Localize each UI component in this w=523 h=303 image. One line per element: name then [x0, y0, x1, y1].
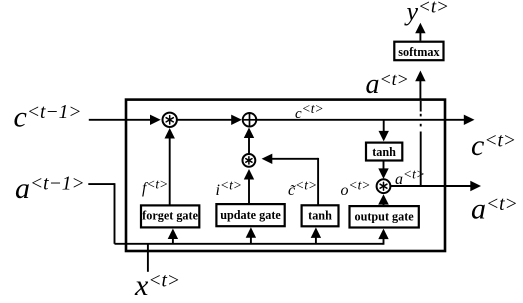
svg-text:tanh: tanh [372, 145, 396, 159]
svg-text:update gate: update gate [220, 208, 281, 222]
multiply node update (circle-asterisk) [243, 154, 256, 167]
tanh box lower [302, 205, 339, 226]
wire c_t-1 into cell [89, 115, 161, 125]
dash-dot wire a_t branch up [420, 101, 422, 186]
output gate box [350, 206, 419, 227]
wire x_t input [147, 244, 149, 272]
wire update gate up to multiply [244, 169, 254, 204]
multiply node output (circle-asterisk) [377, 179, 391, 193]
wire softmax to y_t [415, 23, 425, 41]
multiply node forget (circle-asterisk) [163, 113, 177, 127]
wire a_t-1 down to bus [88, 183, 114, 244]
wire bus up into tanh [311, 227, 321, 243]
svg-text:softmax: softmax [398, 45, 440, 59]
wire box top to softmax [415, 71, 425, 100]
svg-text:forget gate: forget gate [142, 209, 198, 223]
wire forget gate up to multiply [165, 128, 175, 205]
wire a_t out to right [390, 181, 481, 191]
wire tanh down to multiply out [378, 161, 388, 179]
add node (circle-plus) [243, 113, 257, 127]
svg-text:output gate: output gate [354, 209, 414, 223]
wire ctilde branch into multiply [262, 154, 319, 206]
forget gate box [141, 205, 199, 227]
wire c_t out to right [256, 115, 474, 125]
svg-text:tanh: tanh [308, 208, 332, 222]
wire output gate up to multiply out [378, 194, 389, 206]
wire bus up into update gate [246, 227, 256, 244]
bus wire along cell bottom [115, 243, 384, 245]
update gate box [216, 204, 284, 226]
wire branch down to tanh [379, 120, 389, 142]
wire multiply to add [177, 115, 242, 125]
wire bus up into output gate [378, 229, 388, 245]
wire bus up into forget gate [168, 229, 178, 244]
tanh box upper [366, 143, 402, 161]
softmax box U-softmax [394, 42, 443, 61]
LSTM cell boundary box [126, 100, 445, 251]
wire lower multiply up to add [244, 128, 254, 154]
